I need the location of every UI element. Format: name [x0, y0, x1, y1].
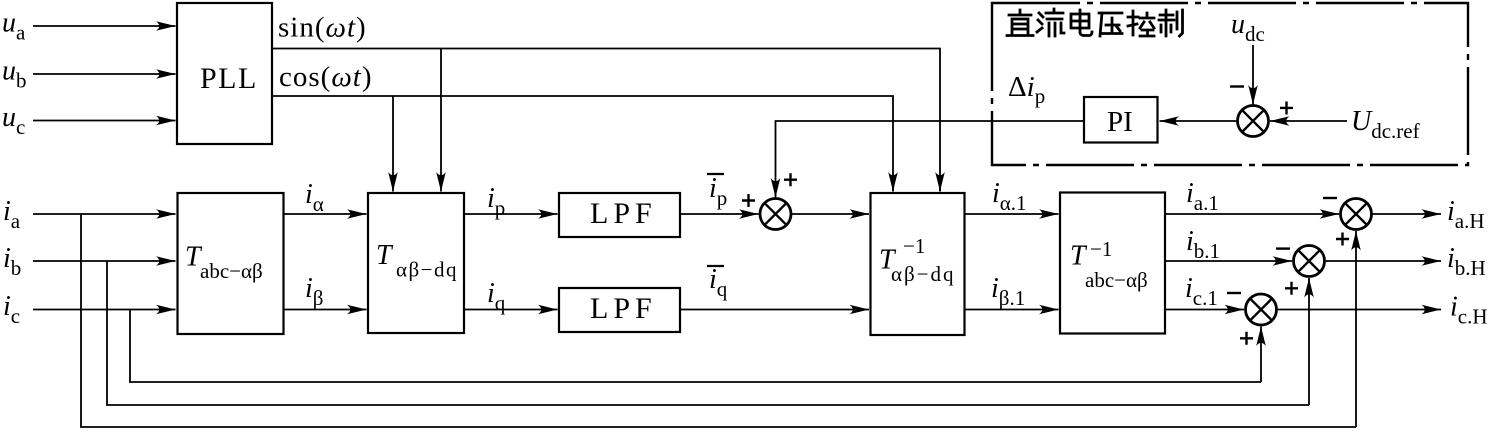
wire out i_cH [1277, 309, 1442, 311]
plus above right of summer1 [784, 173, 797, 186]
PI block [1084, 97, 1158, 143]
minus at summerB [1276, 247, 1290, 249]
summerA (circle with X) [1341, 199, 1372, 230]
svg-text:T: T [376, 240, 394, 271]
block T_abc-ab [178, 193, 284, 334]
wire summer to PI [1160, 120, 1238, 122]
summer1 (circle with X) [760, 199, 791, 230]
svg-text:LPF: LPF [590, 292, 657, 325]
wire i_q [464, 309, 558, 311]
block T_ab-dq [368, 193, 464, 333]
plus left of summer1 [742, 194, 755, 207]
minus at summerA [1323, 197, 1337, 199]
wire delta i_p from PI to summer1 [776, 121, 1085, 190]
wire ibar_q [680, 309, 869, 311]
svg-text:T: T [1070, 241, 1088, 272]
PLL block [177, 3, 272, 144]
summerB (circle with X) [1294, 246, 1325, 277]
wire out i_bH [1325, 260, 1442, 262]
svg-text:cos(ωt): cos(ωt) [279, 61, 373, 93]
wire i_b.1 to summerB [1165, 260, 1292, 262]
wire u_dc down [1252, 45, 1254, 105]
wire out i_aH [1372, 213, 1442, 215]
wire i_alpha.1 [965, 213, 1059, 215]
wire i_p [464, 213, 558, 215]
wire i_beta [284, 309, 367, 311]
block LPF2 [559, 288, 680, 332]
svg-text:PI: PI [1107, 106, 1133, 138]
summerC (circle with X) [1246, 294, 1277, 325]
svg-text:PLL: PLL [200, 62, 258, 95]
wire feedback i_c branch [130, 310, 1261, 383]
wire ibar_p to summer1 [680, 213, 759, 215]
plus at dc summer [1280, 102, 1293, 115]
wire feedback i_b branch [107, 261, 1309, 405]
wire summer1 to T-1ab-dq [791, 213, 869, 215]
wire i_alpha [284, 213, 367, 215]
wire cos branch down to T_ab-dq [392, 96, 394, 192]
wire i_a.1 to summerA [1165, 213, 1339, 215]
dc control dash-dot box [992, 3, 1468, 165]
wire i_beta.1 [965, 309, 1059, 311]
wire u_c [33, 120, 176, 122]
wire feedback up into summerC [1260, 327, 1262, 383]
svg-text:αβ−dq: αβ−dq [396, 258, 458, 282]
wire u_b [33, 73, 176, 75]
svg-text:−1: −1 [903, 234, 925, 258]
plus at summerB [1285, 282, 1298, 295]
wire feedback up into summerB [1308, 278, 1310, 405]
wire sin branch down to T_ab-dq [440, 49, 442, 192]
wire sin [272, 49, 940, 192]
wire Udcref to summer [1270, 120, 1347, 122]
svg-text:−1: −1 [1090, 237, 1112, 261]
minus at summerC [1227, 292, 1241, 294]
block T-1_ab-dq [871, 193, 965, 335]
wire u_a [33, 25, 176, 27]
title zhiliu dianya kongzhi (drawn strokes) [1007, 9, 1183, 36]
plus at summerC [1240, 332, 1253, 345]
wire feedback up into summerA [1355, 231, 1357, 427]
plus at summerA [1336, 233, 1349, 246]
wire feedback i_a branch [81, 214, 1356, 427]
block T-1_abc-ab [1060, 193, 1165, 334]
wire i_b [33, 260, 176, 262]
wire i_c [33, 309, 176, 311]
wire cos [272, 96, 893, 191]
minus at dc summer [1230, 85, 1244, 87]
svg-text:αβ−dq: αβ−dq [891, 262, 956, 286]
svg-text:abc−αβ: abc−αβ [200, 259, 263, 283]
wire i_a [33, 213, 176, 215]
block LPF1 [559, 193, 680, 237]
svg-text:sin(ωt): sin(ωt) [278, 12, 367, 44]
svg-text:LPF: LPF [590, 197, 657, 230]
svg-text:abc−αβ: abc−αβ [1085, 268, 1148, 292]
summer dc (circle with X) [1238, 106, 1269, 137]
wire i_c.1 to summerC [1165, 309, 1244, 311]
